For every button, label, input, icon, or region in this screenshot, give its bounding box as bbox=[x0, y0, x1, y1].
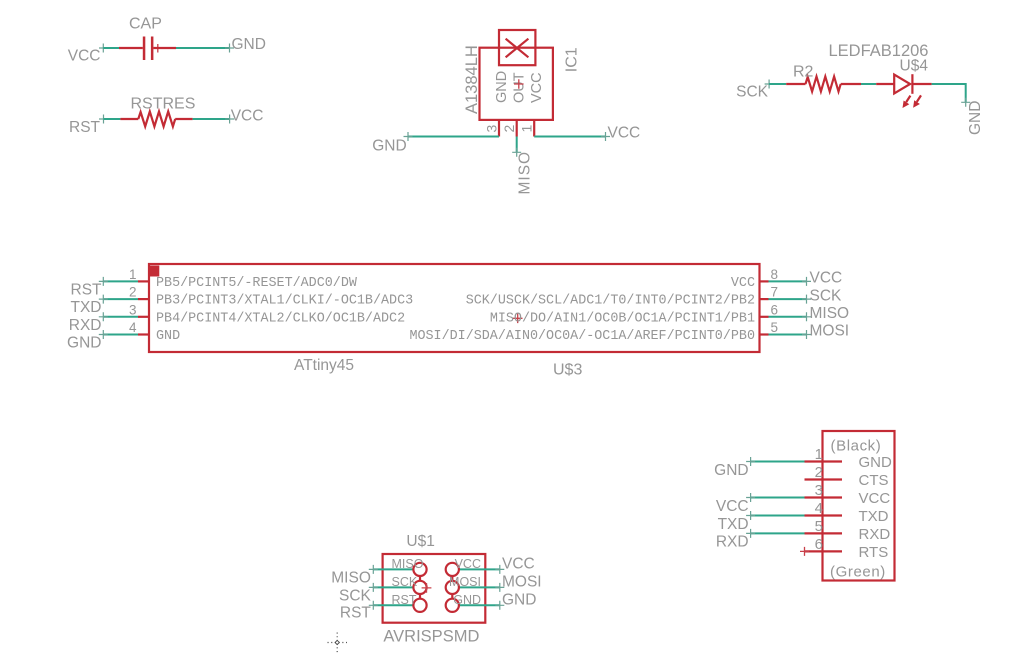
node MISO (u$3) bbox=[810, 305, 850, 322]
pin name VCC row bbox=[731, 276, 755, 291]
svg-text:1: 1 bbox=[815, 446, 823, 463]
svg-text:RST: RST bbox=[392, 593, 417, 607]
pin name PB3 row bbox=[156, 294, 413, 309]
pin cross RST u$1 bbox=[369, 601, 378, 610]
svg-text:RST: RST bbox=[69, 119, 101, 136]
svg-text:5: 5 bbox=[771, 320, 779, 335]
wire TXD to ftdi pin4 bbox=[751, 515, 805, 517]
svg-text:GND: GND bbox=[714, 462, 748, 479]
label U$3 bbox=[553, 362, 582, 379]
pin cross at RXD ftdi bbox=[746, 529, 755, 538]
svg-text:RXD: RXD bbox=[859, 526, 891, 543]
origin cross ftdi pin6 bbox=[800, 547, 809, 556]
svg-text:VCC: VCC bbox=[608, 125, 641, 142]
svg-text:MISO: MISO bbox=[331, 569, 371, 586]
pin cross at GND led bbox=[961, 98, 970, 107]
svg-text:3: 3 bbox=[129, 302, 137, 317]
svg-text:VCC: VCC bbox=[231, 107, 264, 124]
svg-text:TXD: TXD bbox=[718, 516, 749, 533]
LED U$4 bbox=[876, 74, 931, 108]
pin cross at VCC ic1 bbox=[601, 132, 610, 141]
svg-text:RSTRES: RSTRES bbox=[131, 96, 196, 113]
pin cross GND u$1 bbox=[495, 601, 504, 610]
node GND (u$3) bbox=[67, 335, 101, 352]
svg-text:U$4: U$4 bbox=[900, 58, 929, 75]
svg-text:MOSI: MOSI bbox=[810, 323, 850, 340]
pin 5 MOSI bbox=[760, 320, 812, 339]
pin 4 GND bbox=[99, 320, 149, 339]
svg-text:VCC: VCC bbox=[716, 498, 749, 515]
svg-text:GND: GND bbox=[67, 335, 101, 352]
svg-text:U$3: U$3 bbox=[553, 362, 582, 379]
svg-text:6: 6 bbox=[815, 536, 823, 553]
node GND (led) bbox=[967, 101, 984, 135]
svg-text:SCK: SCK bbox=[392, 575, 418, 589]
pin 8 VCC bbox=[760, 267, 812, 286]
svg-text:MOSI/DI/SDA/AIN0/OC0A/-OC1A/AR: MOSI/DI/SDA/AIN0/OC0A/-OC1A/AREF/PCINT0/… bbox=[409, 329, 755, 344]
wire VCC to capacitor bbox=[103, 47, 119, 49]
pin cross at VCC right bbox=[225, 115, 234, 124]
svg-text:GND: GND bbox=[502, 591, 536, 608]
svg-text:IC1: IC1 bbox=[563, 47, 580, 72]
svg-text:2: 2 bbox=[815, 464, 823, 481]
svg-text:PB3/PCINT3/XTAL1/CLKI/-OC1B/AD: PB3/PCINT3/XTAL1/CLKI/-OC1B/ADC3 bbox=[156, 294, 413, 309]
pin number 2 bbox=[501, 125, 517, 133]
svg-text:VCC: VCC bbox=[859, 490, 891, 507]
svg-text:MISO: MISO bbox=[392, 557, 424, 571]
wire SCK into header bbox=[373, 586, 414, 588]
svg-text:CTS: CTS bbox=[859, 472, 889, 489]
wire GND to ftdi pin1 bbox=[751, 461, 805, 463]
node VCC (ftdi) bbox=[716, 498, 749, 515]
svg-text:RST: RST bbox=[340, 605, 372, 622]
node TXD (u$3) bbox=[71, 299, 102, 316]
svg-text:VCC: VCC bbox=[731, 276, 755, 291]
svg-text:CAP: CAP bbox=[129, 16, 162, 33]
svg-text:GND: GND bbox=[156, 329, 180, 344]
ftdi pin 6 bbox=[805, 536, 889, 561]
label LEDFAB1206 bbox=[829, 42, 929, 60]
node MOSI (u$1) bbox=[502, 573, 542, 590]
node VCC (rstres net right) bbox=[231, 107, 264, 124]
svg-text:VCC: VCC bbox=[68, 48, 101, 65]
pin cross at MISO ic1 bbox=[512, 148, 521, 157]
wire GND out of header bbox=[459, 604, 500, 606]
header pad circle GND bbox=[446, 599, 459, 612]
svg-text:GND: GND bbox=[859, 454, 893, 471]
pin cross at VCC ftdi bbox=[746, 493, 755, 502]
svg-text:SCK: SCK bbox=[736, 84, 769, 101]
svg-text:PB5/PCINT5/-RESET/ADC0/DW: PB5/PCINT5/-RESET/ADC0/DW bbox=[156, 276, 358, 291]
node GND (cap net right) bbox=[232, 36, 266, 53]
node GND (ftdi) bbox=[714, 462, 748, 479]
svg-text:1: 1 bbox=[129, 267, 137, 282]
pin 2 TXD bbox=[99, 285, 149, 304]
pin 6 MISO bbox=[760, 302, 812, 321]
resistor RSTRES bbox=[120, 112, 192, 127]
ftdi pin 5 bbox=[805, 518, 891, 543]
label (Green) bbox=[830, 564, 886, 581]
wire RST to resistor bbox=[104, 118, 121, 120]
svg-text:GND: GND bbox=[494, 71, 510, 103]
ftdi pin 2 bbox=[805, 464, 889, 489]
pin cross at SCK bbox=[765, 80, 774, 89]
svg-text:MISO: MISO bbox=[810, 305, 850, 322]
svg-text:VCC: VCC bbox=[502, 555, 535, 572]
svg-text:3: 3 bbox=[484, 125, 500, 133]
pin name OUT bbox=[512, 72, 528, 103]
node GND (ic1) bbox=[372, 138, 406, 155]
FTDI connector body bbox=[823, 431, 895, 581]
wire RST into header bbox=[373, 604, 414, 606]
pin name VCC u$1 bbox=[455, 557, 481, 571]
label ATtiny45 bbox=[294, 357, 354, 374]
pin name GND row bbox=[156, 329, 180, 344]
node VCC (cap net left) bbox=[68, 48, 101, 65]
pin name PB2 row bbox=[466, 294, 755, 309]
pin name PB5 row bbox=[156, 276, 358, 291]
label (Black) bbox=[831, 438, 882, 455]
svg-text:SCK/USCK/SCL/ADC1/T0/INT0/PCIN: SCK/USCK/SCL/ADC1/T0/INT0/PCINT2/PB2 bbox=[466, 294, 755, 309]
svg-text:(Green): (Green) bbox=[830, 564, 886, 581]
svg-text:OUT: OUT bbox=[512, 72, 528, 103]
svg-text:2: 2 bbox=[501, 125, 517, 133]
pin cross at TXD ftdi bbox=[746, 511, 755, 520]
svg-text:R2: R2 bbox=[793, 64, 814, 81]
wire VCC out of header bbox=[459, 568, 500, 570]
pin cross at GND left bbox=[404, 132, 413, 141]
svg-text:2: 2 bbox=[129, 285, 137, 300]
wire MISO into header bbox=[373, 568, 414, 570]
pin cross at VCC bbox=[99, 44, 108, 53]
svg-text:GND: GND bbox=[372, 138, 406, 155]
wire RXD to ftdi pin5 bbox=[751, 532, 805, 534]
node MISO (ic1) bbox=[517, 151, 534, 195]
pad link ticks right bbox=[451, 576, 453, 600]
pin 1 stub bbox=[533, 120, 535, 137]
label U$4 bbox=[900, 58, 929, 75]
label R2 bbox=[793, 64, 814, 81]
wire pin2 down bbox=[516, 137, 518, 153]
pin cross MISO u$1 bbox=[369, 565, 378, 574]
pin name RST u$1 bbox=[392, 593, 417, 607]
value label RSTRES bbox=[131, 96, 196, 113]
svg-text:(Black): (Black) bbox=[831, 438, 882, 455]
svg-text:TXD: TXD bbox=[859, 508, 889, 525]
pin cross at GND bbox=[225, 44, 234, 53]
wire SCK to R2 bbox=[769, 83, 786, 85]
svg-text:6: 6 bbox=[771, 302, 779, 317]
label A1384LH bbox=[463, 45, 481, 114]
pin 7 SCK bbox=[760, 285, 812, 304]
svg-text:VCC: VCC bbox=[455, 557, 481, 571]
ATtiny45 U$3 body bbox=[148, 264, 760, 352]
node TXD (ftdi) bbox=[718, 516, 749, 533]
svg-text:ATtiny45: ATtiny45 bbox=[294, 357, 354, 374]
node SCK (led net) bbox=[736, 84, 769, 101]
svg-text:1: 1 bbox=[519, 125, 535, 133]
pin 1 RST bbox=[99, 267, 149, 286]
origin cross u$1 bbox=[422, 583, 432, 593]
pin cross SCK u$1 bbox=[369, 583, 378, 592]
ftdi pin 4 bbox=[805, 500, 889, 525]
pin 3 RXD bbox=[99, 302, 149, 321]
origin crosshair mark bbox=[328, 633, 348, 653]
node MOSI (u$3) bbox=[810, 323, 850, 340]
svg-text:VCC: VCC bbox=[810, 270, 843, 287]
node VCC (u$3) bbox=[810, 270, 843, 287]
svg-text:GND: GND bbox=[967, 101, 984, 135]
svg-text:RTS: RTS bbox=[859, 544, 889, 561]
pin name GND u$1 bbox=[453, 593, 481, 607]
node SCK (u$3) bbox=[810, 287, 843, 304]
svg-text:7: 7 bbox=[771, 285, 779, 300]
value label CAP bbox=[129, 16, 162, 33]
pin name PB0 row bbox=[409, 329, 755, 344]
svg-text:SCK: SCK bbox=[810, 287, 843, 304]
wire pin3 to GND bbox=[408, 136, 499, 138]
header pad circle SCK bbox=[413, 581, 426, 594]
IC1 body A1384LH regulator bbox=[480, 30, 553, 120]
pin cross MOSI u$1 bbox=[495, 583, 504, 592]
pin 3 stub bbox=[498, 120, 500, 137]
pin cross at GND ftdi bbox=[746, 457, 755, 466]
header pad circle MISO bbox=[413, 563, 426, 576]
pin number 1 bbox=[519, 125, 535, 133]
svg-text:GND: GND bbox=[232, 36, 266, 53]
node RXD (ftdi) bbox=[716, 534, 749, 551]
header pad circle MOSI bbox=[446, 581, 459, 594]
pin cross VCC u$1 bbox=[495, 565, 504, 574]
node SCK (u$1) bbox=[339, 587, 372, 604]
pin cross at RST bbox=[99, 115, 108, 124]
capacitor CAP bbox=[119, 37, 176, 61]
resistor R2 bbox=[786, 77, 861, 92]
pin name SCK u$1 bbox=[392, 575, 418, 589]
svg-text:MOSI: MOSI bbox=[449, 575, 481, 589]
pin number 3 bbox=[484, 125, 500, 133]
pad link ticks left bbox=[419, 576, 421, 600]
ftdi pin 3 bbox=[805, 482, 891, 507]
wire LED to GND corner bbox=[932, 84, 966, 102]
svg-text:VCC: VCC bbox=[529, 72, 545, 103]
wire MOSI out of header bbox=[459, 586, 500, 588]
label IC1 bbox=[563, 47, 580, 72]
AVRISP header U$1 body bbox=[383, 554, 486, 623]
pin 2 stub bbox=[516, 120, 518, 137]
wire resistor to VCC bbox=[193, 118, 230, 120]
node GND (u$1) bbox=[502, 591, 536, 608]
svg-text:GND: GND bbox=[453, 593, 481, 607]
label U$1 bbox=[406, 533, 434, 550]
pin name PB4 row bbox=[156, 311, 405, 326]
svg-text:A1384LH: A1384LH bbox=[463, 45, 481, 114]
svg-text:RXD: RXD bbox=[716, 534, 749, 551]
pin name MOSI u$1 bbox=[449, 575, 481, 589]
svg-text:PB4/PCINT4/XTAL2/CLKO/OC1B/ADC: PB4/PCINT4/XTAL2/CLKO/OC1B/ADC2 bbox=[156, 311, 405, 326]
svg-text:TXD: TXD bbox=[71, 299, 102, 316]
svg-text:SCK: SCK bbox=[339, 587, 372, 604]
ftdi pin 1 bbox=[805, 446, 893, 471]
svg-text:4: 4 bbox=[129, 320, 137, 335]
node MISO (u$1) bbox=[331, 569, 371, 586]
svg-text:3: 3 bbox=[815, 482, 823, 499]
wire pin1 to VCC bbox=[534, 136, 605, 138]
svg-text:8: 8 bbox=[771, 267, 779, 282]
header pad circle VCC bbox=[446, 563, 459, 576]
header pad circle RST bbox=[413, 599, 426, 612]
label AVRISPSMD bbox=[383, 628, 479, 646]
node VCC (ic1) bbox=[608, 125, 641, 142]
svg-text:4: 4 bbox=[815, 500, 823, 517]
wire capacitor to GND bbox=[176, 47, 230, 49]
svg-text:MISO: MISO bbox=[517, 151, 534, 195]
pin name GND bbox=[494, 71, 510, 103]
svg-text:AVRISPSMD: AVRISPSMD bbox=[383, 628, 479, 646]
svg-text:5: 5 bbox=[815, 518, 823, 535]
wire R2 to LED bbox=[861, 83, 876, 85]
origin cross U$3 bbox=[513, 314, 523, 324]
svg-text:MOSI: MOSI bbox=[502, 573, 542, 590]
node RXD (u$3) bbox=[69, 317, 102, 334]
node RST (rstres net) bbox=[69, 119, 101, 136]
node RST (u$3) bbox=[71, 282, 103, 299]
svg-text:MISO/DO/AIN1/OC0B/OC1A/PCINT1/: MISO/DO/AIN1/OC0B/OC1A/PCINT1/PB1 bbox=[490, 311, 755, 326]
wire VCC to ftdi pin3 bbox=[751, 497, 805, 499]
node VCC (u$1) bbox=[502, 555, 535, 572]
pin name MISO u$1 bbox=[392, 557, 424, 571]
svg-text:RXD: RXD bbox=[69, 317, 102, 334]
svg-text:U$1: U$1 bbox=[406, 533, 434, 550]
pin name VCC bbox=[529, 72, 545, 103]
pin name PB1 row bbox=[490, 311, 755, 326]
node RST (u$1) bbox=[340, 605, 372, 622]
svg-text:RST: RST bbox=[71, 282, 103, 299]
origin cross IC1 bbox=[514, 79, 524, 89]
